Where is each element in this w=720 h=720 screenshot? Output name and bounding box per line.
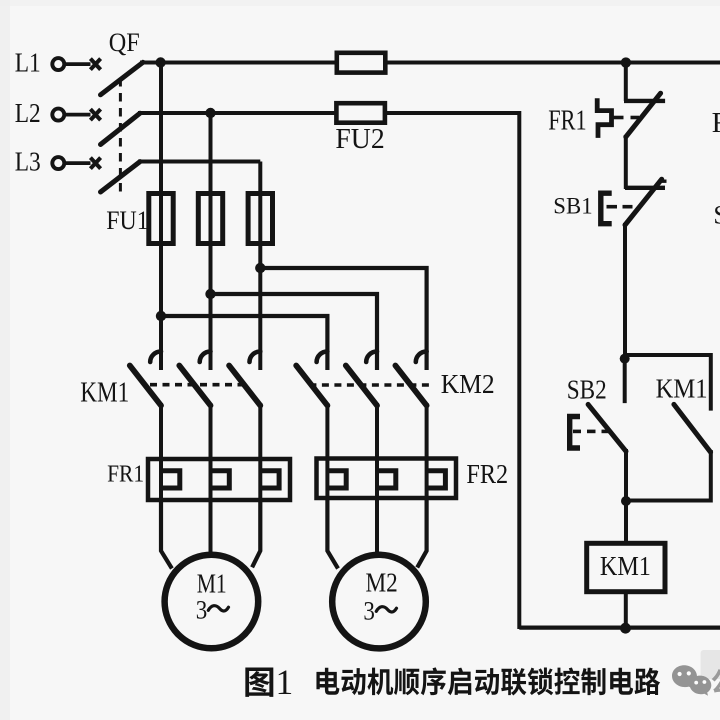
circuit breaker QF blade pole 1: [101, 62, 144, 95]
wire KM1 pole 3 to FR1: [258, 403, 262, 461]
wire FR1 to M1 lead 1: [161, 498, 172, 569]
breaker cross L2: [90, 109, 100, 120]
node pole2 branch: [205, 289, 215, 299]
breaker cross L1: [90, 59, 100, 70]
svg-text:FR2: FR2: [466, 458, 508, 489]
contactor KM2 main contact pole 2: [366, 351, 377, 362]
circuit breaker QF blade pole 3: [101, 162, 141, 192]
wire FR2 to M2 lead 1: [327, 496, 338, 569]
contactor KM2 main contact pole 3: [416, 351, 427, 362]
node L1 bus to pole 1: [155, 57, 165, 67]
wire KM1 pole 1 to FR1: [159, 403, 163, 461]
svg-text:KM1: KM1: [600, 551, 651, 581]
contactor KM1 main contact pole 1: [150, 351, 161, 362]
wire KM1 aux lower: [626, 450, 711, 501]
SB2 NO contact blade: [588, 404, 626, 451]
wire SB2 upper: [623, 359, 627, 404]
node bottom bus: [620, 623, 631, 634]
svg-text:SB1: SB1: [553, 194, 592, 220]
SB2 linkage dashes: [573, 430, 581, 434]
contactor KM1 main contact pole 3: [250, 351, 261, 362]
SB1 linkage dashes: [607, 205, 618, 209]
FR1 NC contact fixed bar: [624, 99, 665, 103]
watermark wechat bubble 1: [672, 665, 697, 688]
thermal relay FR2 box: [317, 459, 457, 499]
wire KM1 pole 2 to FR1: [209, 403, 213, 461]
FR2 heater element 2: [377, 471, 396, 488]
wire pole3 bus to FU1: [258, 162, 262, 197]
terminal circle L3: [52, 157, 64, 169]
fuse FU1 element 1: [149, 194, 173, 244]
wire bottom bus: [519, 625, 720, 629]
wire control from L1 node: [624, 63, 628, 101]
svg-text:1: 1: [276, 662, 294, 702]
FR1 heater element 1: [161, 471, 180, 488]
wire FR1 to M1 lead 3: [252, 498, 260, 567]
wire branch to KM2 pole 2: [211, 294, 378, 370]
wire L2 terminal to breaker: [65, 113, 91, 117]
KM2 linkage dashed line: [309, 383, 432, 387]
svg-text:L1: L1: [15, 46, 41, 77]
svg-text:FU1: FU1: [106, 206, 148, 235]
wire branch to KM1 aux: [625, 355, 711, 411]
svg-text:KM2: KM2: [441, 369, 495, 399]
wire FR2 to M2 lead 3: [417, 496, 426, 568]
wire SB1 to branch node: [623, 223, 627, 360]
wire node to coil: [624, 499, 628, 545]
watermark wechat bubble 2: [690, 676, 712, 696]
svg-text:QF: QF: [109, 27, 140, 57]
KM1 aux NO contact blade: [674, 404, 711, 452]
SB1 NC contact fixed bar: [625, 186, 665, 190]
svg-text:FR1: FR1: [107, 461, 144, 488]
wire coil to bottom bus: [624, 592, 628, 629]
FR1 NC contact blade: [626, 93, 661, 137]
contactor KM1 main contact pole 2: [200, 351, 211, 362]
wire L3 terminal to breaker: [65, 161, 91, 165]
node coil top: [621, 496, 631, 506]
svg-text:FR2: FR2: [712, 107, 720, 139]
fuse FU2b: [336, 103, 385, 123]
wire FR2 to M2 lead 2: [375, 496, 379, 555]
caption 图: [245, 668, 273, 697]
FR1 thermal actuator: [597, 98, 611, 138]
breaker cross L3: [90, 158, 100, 169]
SB2 pushbutton bracket: [570, 417, 580, 449]
motor M1 circle: [165, 555, 259, 649]
SB1 pushbutton bracket: [601, 193, 612, 224]
svg-text:M2: M2: [366, 568, 398, 598]
wire pole3 FU1 to KM1 contact: [258, 241, 262, 370]
node pole1 branch: [156, 311, 166, 321]
wire L1 bus right of FU2: [385, 61, 720, 65]
svg-text:3: 3: [196, 594, 208, 624]
wire branch to KM2 pole 3: [260, 268, 426, 370]
wire pole2 bus to FU1: [209, 113, 213, 196]
wire KM2 pole 3 to FR2: [425, 403, 429, 460]
svg-text:3: 3: [363, 595, 375, 625]
wire pole2 FU1 to KM1 contact: [209, 241, 213, 370]
wire SB2 lower: [624, 449, 628, 503]
wire pole1 FU1 to KM1 contact: [159, 241, 163, 370]
wire L3 bus: [138, 160, 260, 164]
svg-text:L3: L3: [15, 145, 41, 176]
KM1 linkage dashed line: [150, 383, 245, 387]
svg-text:SB3: SB3: [713, 201, 720, 230]
wire L2 bus left of FU2: [138, 111, 338, 115]
contactor coil KM1 box: [587, 543, 665, 591]
svg-text:KM1: KM1: [656, 373, 708, 403]
contactor KM2 main contact pole 1: [317, 351, 328, 362]
FR2 heater element 3: [427, 471, 446, 488]
svg-text:L2: L2: [15, 97, 41, 128]
wire FR1 to SB1: [624, 135, 628, 189]
fuse FU2a: [337, 53, 386, 73]
node pole3 branch: [255, 263, 265, 273]
wire KM2 pole 1 to FR2: [325, 403, 329, 460]
svg-text:KM1: KM1: [80, 376, 129, 408]
wire control return rail: [517, 111, 521, 629]
svg-text:SB2: SB2: [567, 375, 607, 405]
terminal circle L1: [52, 58, 64, 70]
node L2 bus to pole 2: [205, 108, 215, 118]
watermark partial 公: [712, 669, 720, 694]
wire L2 bus right of FU2: [385, 111, 519, 115]
node control branch: [620, 354, 630, 364]
wire L1 terminal to breaker: [65, 62, 91, 66]
FR1 heater element 3: [260, 471, 279, 488]
watermark grey square: [701, 650, 720, 679]
wire FR1 to M1 lead 2: [209, 498, 213, 555]
circuit breaker QF blade pole 2: [101, 113, 141, 144]
FR1 actuator linkage dashes: [614, 116, 624, 120]
wire L1 bus left of FU2: [140, 61, 338, 65]
fuse FU1 element 3: [248, 194, 272, 244]
QF linkage dashed line: [119, 78, 122, 193]
svg-text:FU2: FU2: [335, 123, 384, 155]
svg-text:FR1: FR1: [548, 105, 586, 137]
thermal relay FR1 box: [148, 459, 290, 500]
FR1 heater element 2: [211, 471, 230, 488]
SB1 NC contact blade: [625, 179, 662, 225]
node L1 bus to control: [621, 57, 631, 67]
caption title text: [316, 668, 339, 695]
FR2 heater element 1: [327, 471, 346, 488]
wire branch to KM2 pole 1: [161, 316, 327, 370]
fuse FU1 element 2: [198, 194, 222, 244]
terminal circle L2: [52, 109, 64, 121]
motor M2 circle: [332, 555, 426, 649]
wire KM2 pole 2 to FR2: [375, 403, 379, 460]
wire pole1 bus to FU1: [159, 63, 163, 197]
